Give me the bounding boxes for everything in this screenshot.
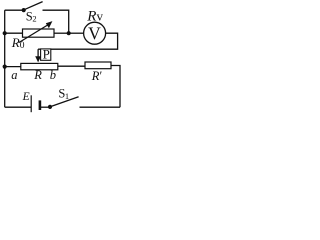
label box P (41, 47, 51, 62)
wire bottom left segment (5, 106, 32, 108)
node left middle (3, 65, 7, 69)
potentiometer R (a-b) (11, 63, 58, 81)
node junction right (67, 31, 71, 35)
svg-text:b: b (50, 68, 56, 82)
wiper arrow P (35, 49, 41, 62)
svg-text:Rv: Rv (86, 8, 103, 24)
svg-text:P: P (43, 47, 50, 62)
svg-text:a: a (11, 68, 17, 82)
wire left vertical (4, 10, 6, 107)
wire R0 to junction (54, 32, 69, 34)
switch S1 (48, 87, 79, 109)
wire top right segment and vertical to junction (43, 10, 69, 33)
wire a terminal (5, 66, 21, 68)
resistor R0 (variable) (11, 21, 54, 51)
battery E (22, 91, 40, 112)
svg-text:E: E (22, 91, 30, 103)
voltmeter U (V) (84, 22, 106, 44)
resistor R' (85, 62, 111, 83)
node junction left (3, 31, 7, 35)
wire R' to right frame (111, 66, 120, 108)
wire top left segment (5, 9, 24, 11)
svg-text:S1: S1 (58, 87, 69, 101)
wire bottom right segment (80, 106, 121, 108)
wire b to R' (58, 65, 85, 67)
svg-text:R: R (33, 68, 42, 82)
wire junction to voltmeter (69, 32, 84, 34)
wire left to R0 (5, 32, 23, 34)
switch S2 (22, 2, 43, 24)
wire voltmeter right loop down to wiper rail (38, 33, 118, 49)
svg-text:R′: R′ (91, 69, 103, 83)
svg-text:V: V (88, 23, 101, 43)
svg-text:S2: S2 (26, 9, 37, 23)
wire battery to S1 (41, 106, 50, 108)
